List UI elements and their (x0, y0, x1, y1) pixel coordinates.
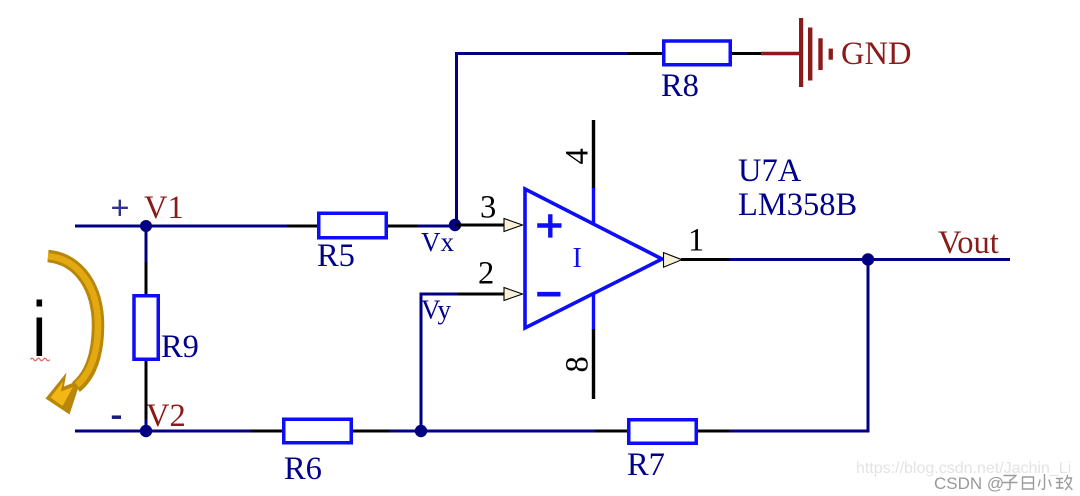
label i (37, 300, 43, 357)
wire pin lead R8 left black (628, 52, 663, 55)
wire output navy (729, 258, 1010, 261)
pin 2 lead black (458, 293, 505, 296)
pin lead R9 bottom black (145, 361, 148, 420)
op-amp U7A triangle (525, 189, 662, 328)
wire Vy to R7 navy (421, 430, 596, 433)
pin lead R9 top black (145, 262, 148, 295)
resistor R7 (629, 420, 697, 444)
pin 4 line blue (592, 188, 595, 224)
wire V2 rail navy (75, 430, 252, 433)
svg-text:R8: R8 (661, 68, 699, 104)
wire Vy navy (421, 294, 459, 431)
resistor R5 (319, 213, 387, 238)
wire V1 rail navy (75, 225, 288, 228)
pin 1 lead black (681, 258, 730, 261)
current arrowhead gold (46, 373, 82, 415)
wire R9 top navy (145, 226, 148, 263)
svg-text:R5: R5 (317, 238, 355, 274)
ground GND symbol (799, 18, 833, 87)
svg-text:2: 2 (478, 256, 494, 292)
resistor R6 (284, 419, 352, 443)
pin 2 arrowhead (504, 288, 523, 301)
svg-text:Vx: Vx (421, 227, 454, 257)
pin 8 line black (592, 329, 595, 399)
node output junction (862, 253, 874, 265)
op-amp plus input mark (537, 214, 561, 237)
svg-text:4: 4 (560, 148, 596, 164)
svg-text:CSDN @: CSDN @ (934, 474, 1004, 493)
svg-text:R6: R6 (284, 451, 322, 487)
svg-text:GND: GND (841, 36, 911, 72)
svg-text:8: 8 (560, 356, 596, 372)
wire R6 to Vy navy (389, 430, 422, 433)
op-amp minus input mark (537, 292, 560, 297)
wire to Vx node navy (417, 225, 456, 228)
wire R9 bottom navy (145, 419, 148, 431)
pin lead R5 left black (287, 225, 318, 228)
wire GND lead dark red (761, 52, 800, 56)
pin lead R6 right black (353, 430, 390, 433)
svg-text:Vy: Vy (421, 295, 452, 325)
svg-text:V1: V1 (144, 190, 184, 226)
node V1 junction (140, 220, 152, 232)
resistor R8 (664, 41, 731, 65)
svg-text:LM358B: LM358B (738, 187, 857, 223)
wire pin lead R8 right black (732, 52, 762, 55)
svg-text:R7: R7 (627, 447, 665, 483)
pin lead R5 right black (388, 225, 418, 228)
label plus (112, 200, 128, 216)
pin lead R6 left black (251, 430, 283, 433)
pin 4 line black (592, 120, 595, 189)
wire feedback vertical navy (728, 260, 868, 432)
svg-text:1: 1 (688, 223, 704, 259)
pin 1 arrowhead (664, 253, 682, 268)
squiggle under i (31, 358, 50, 361)
svg-text:3: 3 (480, 190, 496, 226)
pin 8 line blue (592, 294, 595, 330)
pin lead R7 right black (698, 430, 729, 433)
glyph xiao (1039, 475, 1052, 490)
svg-text:I: I (573, 243, 582, 274)
svg-text:Vout: Vout (938, 225, 999, 261)
svg-text:V2: V2 (146, 398, 186, 434)
node Vy junction (415, 425, 427, 437)
label minus (112, 415, 121, 419)
svg-text:U7A: U7A (738, 153, 802, 189)
svg-text:R9: R9 (161, 329, 199, 365)
pin 3 lead black (455, 224, 505, 227)
resistor R9 (134, 296, 158, 360)
glyph zi (1003, 476, 1017, 490)
glyph yue (1023, 477, 1034, 489)
node Vx junction (449, 219, 461, 231)
wire top rail navy (457, 54, 630, 226)
pin 3 arrowhead (504, 219, 523, 232)
glyph jiu (1057, 476, 1073, 490)
node V2 junction (140, 425, 152, 437)
pin lead R7 left black (595, 430, 628, 433)
current arrow gold (48, 256, 98, 387)
